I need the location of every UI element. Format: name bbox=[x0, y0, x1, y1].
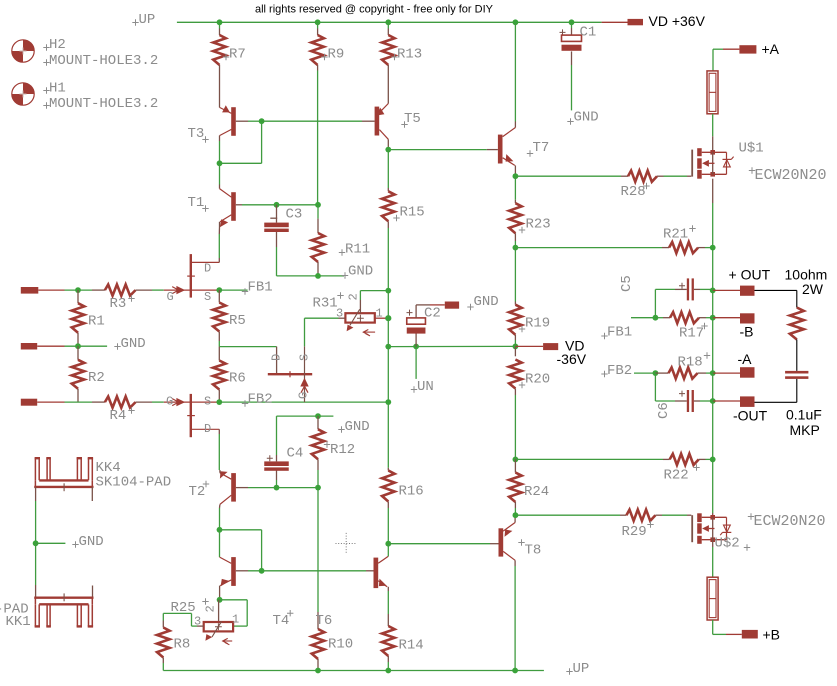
svg-text:-A: -A bbox=[738, 351, 753, 367]
svg-text:GND: GND bbox=[121, 336, 146, 352]
svg-text:R15: R15 bbox=[400, 205, 425, 221]
svg-text:C3: C3 bbox=[286, 207, 303, 223]
junction R31 pin1 bbox=[385, 315, 391, 321]
wire U$1 source down bbox=[712, 179, 714, 203]
junction FB1 (source) bbox=[216, 287, 222, 293]
junction R31 pin1 column mid bbox=[385, 344, 391, 350]
svg-text:FB1: FB1 bbox=[248, 280, 273, 296]
resistor R17 bbox=[655, 317, 663, 319]
capacitor C4 bbox=[276, 469, 278, 480]
capacitor C3 bbox=[276, 205, 278, 223]
wire jfet T10 source to R31 pin3 bbox=[304, 318, 306, 346]
svg-text:ECW20N20: ECW20N20 bbox=[755, 167, 827, 184]
svg-text:T5: T5 bbox=[404, 111, 421, 127]
resistor R23 bbox=[514, 176, 516, 200]
svg-text:R23: R23 bbox=[526, 217, 551, 233]
svg-text:T1: T1 bbox=[188, 195, 205, 211]
pad +OUT bbox=[740, 286, 755, 296]
junction R23/R19/R21 bbox=[513, 245, 519, 251]
mosfet U$1 bbox=[691, 150, 693, 177]
svg-text:D: D bbox=[204, 262, 211, 276]
heatsink KK4 bbox=[34, 458, 36, 480]
wire R5/R6 mid to jfet T10 drain bbox=[219, 346, 276, 348]
jfet T11 lower (input) bbox=[190, 394, 192, 437]
svg-text:1: 1 bbox=[232, 613, 239, 627]
svg-text:H2: H2 bbox=[49, 37, 66, 53]
wire +A bbox=[713, 48, 723, 50]
wire input 1 bbox=[38, 289, 64, 291]
resistor R10 bbox=[317, 612, 319, 629]
wire R24 node to R22 bbox=[515, 458, 663, 460]
svg-text:S: S bbox=[204, 290, 211, 304]
junction FB2/C6 bbox=[653, 370, 659, 376]
junction FB2 (source) bbox=[216, 399, 222, 405]
fuse F1 bbox=[707, 71, 718, 114]
resistor R5 bbox=[218, 290, 220, 302]
svg-text:GND: GND bbox=[79, 534, 104, 550]
net label FB2 (left) bbox=[242, 400, 248, 406]
junction R24 / R29 / T8 emitter bbox=[513, 512, 519, 518]
junction R17 / -B node bbox=[710, 315, 716, 321]
junction top rail / R13 bbox=[385, 19, 391, 25]
junction R19/R20 column / R22 wire bbox=[513, 457, 519, 463]
svg-text:R28: R28 bbox=[621, 184, 646, 200]
svg-text:U$1: U$1 bbox=[739, 141, 764, 157]
wire -OUT stub bbox=[713, 400, 740, 402]
junction top rail / R7 bbox=[217, 19, 223, 25]
capacitor C6 bbox=[655, 400, 675, 402]
net label GND (heatsink) bbox=[72, 541, 78, 547]
pad -OUT bbox=[740, 396, 755, 407]
svg-text:R10: R10 bbox=[328, 637, 353, 653]
transistor T2 bbox=[231, 473, 236, 502]
svg-text:2: 2 bbox=[347, 293, 361, 300]
svg-text:+ OUT: + OUT bbox=[729, 267, 771, 283]
resistor R6 bbox=[218, 347, 220, 361]
svg-text:C6: C6 bbox=[656, 402, 672, 419]
label R12 bbox=[324, 441, 330, 447]
label R18 bbox=[704, 352, 710, 358]
junction T2/T4 collector bbox=[217, 527, 223, 533]
label T7 bbox=[527, 150, 533, 156]
wire T1 base to C3 node bbox=[242, 204, 318, 206]
svg-text:R1: R1 bbox=[88, 314, 105, 330]
svg-text:D: D bbox=[204, 422, 211, 436]
wire T4/T6 base run bbox=[248, 570, 366, 572]
wire +OUT stub bbox=[713, 289, 740, 291]
label ECW20N20 (U$1) bbox=[749, 167, 755, 173]
body diode U$1 bbox=[723, 158, 732, 160]
svg-text:2: 2 bbox=[203, 605, 217, 612]
net label GND (C1) bbox=[567, 118, 573, 124]
label R20 bbox=[519, 382, 525, 388]
svg-text:R22: R22 bbox=[664, 468, 689, 484]
label R22 bbox=[693, 464, 699, 470]
junction C4 bottom bbox=[274, 485, 280, 491]
resistor R28 bbox=[515, 175, 621, 177]
svg-text:VD +36V: VD +36V bbox=[649, 13, 706, 29]
svg-text:C4: C4 bbox=[287, 446, 304, 462]
svg-text:GND: GND bbox=[474, 294, 499, 310]
transistor T7 bbox=[498, 135, 503, 164]
label R9 bbox=[321, 54, 327, 60]
svg-text:2W: 2W bbox=[802, 281, 824, 297]
junction C2 bottom bbox=[413, 344, 419, 350]
resistor R15 bbox=[387, 150, 389, 188]
svg-text:R25: R25 bbox=[171, 600, 196, 616]
wire VD -36V stub bbox=[515, 345, 543, 347]
net label UP (top rail) bbox=[132, 19, 138, 25]
net label GND (C4/R12) bbox=[338, 426, 344, 432]
transistor T1 bbox=[231, 192, 236, 221]
wire stub to VD+36V pad bbox=[602, 21, 628, 23]
wire output column mid bbox=[712, 290, 714, 459]
label R21 bbox=[689, 225, 695, 231]
capacitor C2 bbox=[415, 333, 417, 346]
svg-text:3: 3 bbox=[336, 307, 343, 321]
label MOUNT-HOLE3.2 (H1) bbox=[43, 102, 49, 108]
resistor R13 bbox=[387, 22, 389, 28]
label R25 bbox=[202, 598, 208, 604]
fuse F2 bbox=[707, 577, 718, 620]
wire T4 base loop bbox=[220, 529, 262, 531]
label R23 bbox=[519, 227, 525, 233]
svg-text:R7: R7 bbox=[229, 47, 246, 63]
pad +A bbox=[739, 45, 756, 53]
svg-text:T6: T6 bbox=[316, 613, 333, 629]
svg-text:T2: T2 bbox=[189, 484, 206, 500]
svg-text:C5: C5 bbox=[619, 275, 635, 292]
svg-text:+B: +B bbox=[763, 627, 781, 643]
wire FB2 branch down to C6 bbox=[654, 373, 656, 401]
junction rail/T8 bbox=[512, 668, 518, 674]
junction R12 top bbox=[315, 413, 321, 419]
resistor R16 bbox=[387, 468, 389, 471]
resistor R12 bbox=[317, 416, 319, 429]
junction T3 base loop bbox=[259, 118, 265, 124]
wire C3/R11 to GND bbox=[277, 275, 345, 277]
body diode U$2 bbox=[723, 531, 732, 533]
junction T4 base bbox=[259, 568, 265, 574]
junction T7 emitter bbox=[513, 173, 519, 179]
pin KK4 right stub bbox=[91, 487, 93, 501]
junction C6 / -OUT node bbox=[710, 398, 716, 404]
wire FB1 to R17 bbox=[631, 317, 655, 319]
wire jfet T11 drain down to T2 bbox=[218, 429, 220, 434]
wire input 2 bbox=[37, 345, 64, 347]
wire top +rail UP bbox=[177, 21, 602, 23]
wire T2 base to C4/R12 bbox=[248, 487, 318, 489]
trimmer R25 bbox=[220, 599, 248, 601]
pad GND (C2) bbox=[445, 302, 459, 309]
resistor R19 bbox=[514, 248, 516, 302]
zobel wire 10ohm to 0.1uF (black) bbox=[796, 340, 798, 371]
svg-text:R21: R21 bbox=[663, 227, 688, 243]
junction rail/R10 bbox=[315, 668, 321, 674]
junction T3 collector bbox=[217, 160, 223, 166]
net label UP (bottom) bbox=[566, 668, 572, 674]
capacitor C1 bbox=[571, 22, 573, 28]
trimmer R31 bbox=[345, 313, 374, 322]
junction input2/R1/R2 bbox=[75, 343, 81, 349]
junction T5 collector / R15 bbox=[385, 147, 391, 153]
svg-text:T8: T8 bbox=[525, 543, 542, 559]
wire T2 collector bbox=[219, 508, 221, 530]
svg-text:R6: R6 bbox=[229, 371, 246, 387]
svg-text:0.1uF: 0.1uF bbox=[786, 407, 822, 423]
svg-text:H1: H1 bbox=[49, 81, 66, 97]
wire -A stub bbox=[713, 372, 740, 374]
resistor R24 bbox=[514, 459, 516, 472]
svg-text:SK104-PAD: SK104-PAD bbox=[96, 475, 172, 491]
svg-text:S: S bbox=[204, 395, 211, 409]
junction R21 / output column bbox=[710, 245, 716, 251]
wire fuse F2 to +B bbox=[712, 620, 714, 634]
wire GND stub (heatsink) bbox=[36, 542, 66, 544]
junction top rail / C1 bbox=[569, 19, 575, 25]
wire output column upper bbox=[712, 248, 714, 291]
mount hole H1 bbox=[12, 83, 34, 105]
label T5 bbox=[401, 121, 407, 127]
svg-text:R29: R29 bbox=[622, 524, 647, 540]
svg-text:C2: C2 bbox=[424, 306, 441, 322]
wire T3 base to T5 base bbox=[262, 120, 362, 122]
wire jfet drain up to T1 bbox=[218, 258, 220, 262]
label R3 bbox=[128, 295, 134, 301]
label R4 bbox=[128, 407, 134, 413]
svg-text:S: S bbox=[298, 354, 312, 361]
svg-text:R12: R12 bbox=[330, 442, 355, 458]
wire T3 base loop bbox=[248, 120, 262, 122]
pad -A bbox=[740, 367, 755, 378]
pad input 3 bbox=[21, 399, 37, 406]
label MOUNT-HOLE3.2 (H2) bbox=[43, 59, 49, 65]
wire C5 left branch down to FB1 bbox=[654, 289, 656, 317]
label H2 bbox=[43, 44, 49, 50]
svg-text:R31: R31 bbox=[313, 296, 338, 312]
svg-text:C1: C1 bbox=[580, 25, 597, 41]
resistor R1 bbox=[77, 290, 79, 303]
label ECW20N20 (U$2) bbox=[748, 513, 754, 519]
svg-text:R5: R5 bbox=[229, 313, 246, 329]
junction R18 / -A node bbox=[710, 370, 716, 376]
wire T8 base bbox=[388, 543, 490, 545]
capacitor C5 bbox=[655, 288, 675, 290]
crosshair marker bbox=[336, 533, 358, 555]
svg-text:1: 1 bbox=[376, 307, 383, 321]
junction rail/R14 bbox=[385, 668, 391, 674]
junction FB2 / R31 column bbox=[385, 399, 391, 405]
junction KK4/KK1 GND bbox=[33, 540, 39, 546]
wire R31 pin2/pin1 column bbox=[387, 291, 389, 319]
svg-text:GND: GND bbox=[574, 110, 599, 126]
junction R22 / output column bbox=[710, 457, 716, 463]
svg-text:FB2: FB2 bbox=[248, 392, 273, 408]
svg-text:UN: UN bbox=[417, 379, 434, 395]
svg-text:UP: UP bbox=[139, 12, 156, 28]
svg-text:G: G bbox=[167, 290, 174, 304]
label H1 bbox=[43, 87, 49, 93]
label R31 bbox=[337, 292, 343, 298]
wire T5 collector to T7 base bbox=[388, 149, 487, 151]
svg-text:R13: R13 bbox=[397, 47, 422, 63]
resistor R29 bbox=[515, 514, 620, 516]
junction input1/R1 bbox=[75, 287, 81, 293]
mount hole H2 bbox=[12, 40, 34, 62]
svg-text:R16: R16 bbox=[399, 484, 424, 500]
transistor T3 bbox=[231, 107, 236, 136]
pad VD +36V bbox=[628, 19, 644, 25]
junction R31 pin2 bbox=[385, 288, 391, 294]
label R13 bbox=[391, 54, 397, 60]
transistor T5 bbox=[375, 107, 380, 136]
wire bottom rail UP bbox=[163, 670, 544, 672]
resistor R14 bbox=[387, 614, 389, 626]
wire -B stub bbox=[713, 317, 740, 319]
svg-text:R18: R18 bbox=[678, 355, 703, 371]
svg-text:-36V: -36V bbox=[557, 351, 587, 367]
svg-text:FB1: FB1 bbox=[607, 325, 632, 341]
resistor R20 bbox=[514, 346, 516, 356]
label U$2 bbox=[744, 544, 750, 550]
transistor T8 bbox=[499, 528, 504, 556]
net label GND (input) bbox=[114, 343, 120, 349]
svg-text:R24: R24 bbox=[524, 484, 549, 500]
junction +OUT node bbox=[710, 288, 716, 294]
label R15 bbox=[393, 215, 399, 221]
resistor R2 bbox=[77, 346, 79, 360]
svg-text:R19: R19 bbox=[525, 316, 550, 332]
svg-text:R8: R8 bbox=[174, 637, 191, 653]
svg-text:G: G bbox=[166, 395, 173, 409]
wire C4 top / GND run bbox=[277, 415, 334, 417]
jfet T10 horizontal (VAS cascode) bbox=[268, 373, 312, 375]
label R17 bbox=[701, 323, 707, 329]
svg-text:R11: R11 bbox=[345, 242, 370, 258]
jfet T9 upper (input) bbox=[190, 254, 192, 298]
svg-text:D: D bbox=[270, 354, 284, 361]
svg-text:R4: R4 bbox=[110, 408, 127, 424]
wire FB2 run bbox=[219, 401, 388, 403]
net label GND (C2) bbox=[467, 304, 473, 310]
pad +B bbox=[742, 630, 758, 639]
svg-text:G: G bbox=[297, 392, 311, 399]
svg-text:R2: R2 bbox=[88, 370, 105, 386]
wire mid rail (VAS to VD-36V) bbox=[388, 345, 515, 347]
heatsink KK1 bbox=[35, 543, 37, 585]
svg-text:GND: GND bbox=[348, 264, 373, 280]
net label FB1 (left) bbox=[242, 288, 248, 294]
label R7 bbox=[223, 54, 229, 60]
wire R9 to C3 node bbox=[317, 71, 319, 205]
resistor R7 bbox=[219, 22, 221, 28]
wire U$2 drain to fuse F2 bbox=[712, 540, 714, 547]
resistor R8 bbox=[162, 621, 164, 628]
svg-text:R20: R20 bbox=[525, 372, 550, 388]
capacitor 0.1uF MKP bbox=[785, 371, 808, 374]
svg-text:R14: R14 bbox=[399, 638, 424, 654]
resistor R21 bbox=[662, 247, 669, 249]
svg-text:R3: R3 bbox=[110, 296, 127, 312]
svg-text:FB2: FB2 bbox=[607, 363, 632, 379]
pad VD -36V bbox=[543, 343, 558, 350]
junction VD-36V node bbox=[513, 344, 519, 350]
transistor T4 bbox=[231, 557, 236, 586]
svg-text:MOUNT-HOLE3.2: MOUNT-HOLE3.2 bbox=[49, 53, 158, 69]
svg-text:R9: R9 bbox=[328, 47, 345, 63]
svg-text:+A: +A bbox=[762, 41, 780, 57]
net label UN bbox=[415, 347, 417, 379]
junction FB1/C5 bbox=[653, 315, 659, 321]
junction C3 top bbox=[274, 202, 280, 208]
net label FB2 (right) bbox=[601, 371, 607, 377]
wire output column to U$2 bbox=[712, 459, 714, 513]
wire T3 collector to T1 bbox=[219, 141, 221, 163]
label R19 bbox=[519, 326, 525, 332]
junction R11 bottom bbox=[315, 273, 321, 279]
svg-text:MKP: MKP bbox=[790, 422, 820, 438]
junction top rail / R9 bbox=[315, 19, 321, 25]
svg-text:T4: T4 bbox=[273, 613, 290, 629]
zobel wire +OUT to 10ohm (black) bbox=[755, 289, 797, 291]
wire R23 to R21 bbox=[515, 247, 662, 249]
label R11 bbox=[339, 249, 345, 255]
junction R9/R11 column bbox=[315, 202, 321, 208]
resistor 10ohm 2W bbox=[790, 308, 804, 340]
svg-text:T7: T7 bbox=[533, 140, 550, 156]
svg-text:ECW20N20: ECW20N20 bbox=[754, 513, 826, 530]
wire KK4 pin to GND bbox=[35, 487, 37, 501]
svg-text:MOUNT-HOLE3.2: MOUNT-HOLE3.2 bbox=[49, 96, 158, 112]
label T8 bbox=[518, 539, 524, 545]
resistor R9 bbox=[317, 22, 319, 28]
svg-text:-B: -B bbox=[740, 324, 754, 340]
svg-text:R17: R17 bbox=[679, 326, 704, 342]
resistor R4 bbox=[92, 401, 105, 403]
svg-text:KK1: KK1 bbox=[6, 614, 31, 630]
zobel wire 0.1uF to -OUT (black) bbox=[796, 379, 798, 402]
svg-text:GND: GND bbox=[345, 419, 370, 435]
wire FB2 to R18 bbox=[634, 372, 655, 374]
net label GND (R11) bbox=[342, 272, 348, 278]
svg-text:U$2: U$2 bbox=[715, 536, 740, 552]
pad input 1 bbox=[21, 287, 39, 294]
wire FB1 stub bbox=[219, 289, 247, 291]
svg-text:3: 3 bbox=[194, 615, 201, 629]
label R29 bbox=[647, 521, 653, 527]
pad input 2 (gnd) bbox=[21, 343, 37, 350]
svg-text:UP: UP bbox=[573, 661, 590, 677]
transistor T6 bbox=[374, 558, 379, 589]
wire fuse F1 to U$1 drain bbox=[712, 114, 714, 137]
junction R16 / T6 collector / T8 base bbox=[385, 541, 391, 547]
wire +A to fuse F1 bbox=[712, 49, 714, 71]
junction top rail / T7 column bbox=[513, 19, 519, 25]
net label FB1 (right) bbox=[601, 333, 607, 339]
resistor R22 bbox=[663, 458, 670, 460]
pad -B bbox=[740, 313, 755, 323]
svg-text:T3: T3 bbox=[188, 126, 205, 142]
wire T7 emitter column from top rail bbox=[514, 22, 516, 121]
junction R12 bottom bbox=[315, 485, 321, 491]
wire input 3 bbox=[37, 401, 64, 403]
svg-text:-OUT: -OUT bbox=[733, 408, 768, 424]
label R28 bbox=[643, 183, 649, 189]
resistor R3 bbox=[92, 289, 105, 291]
resistor R18 bbox=[655, 372, 668, 374]
junction T4 emitter bbox=[217, 597, 223, 603]
svg-text:all rights reserved @ copyrigh: all rights reserved @ copyright - free o… bbox=[255, 4, 494, 16]
